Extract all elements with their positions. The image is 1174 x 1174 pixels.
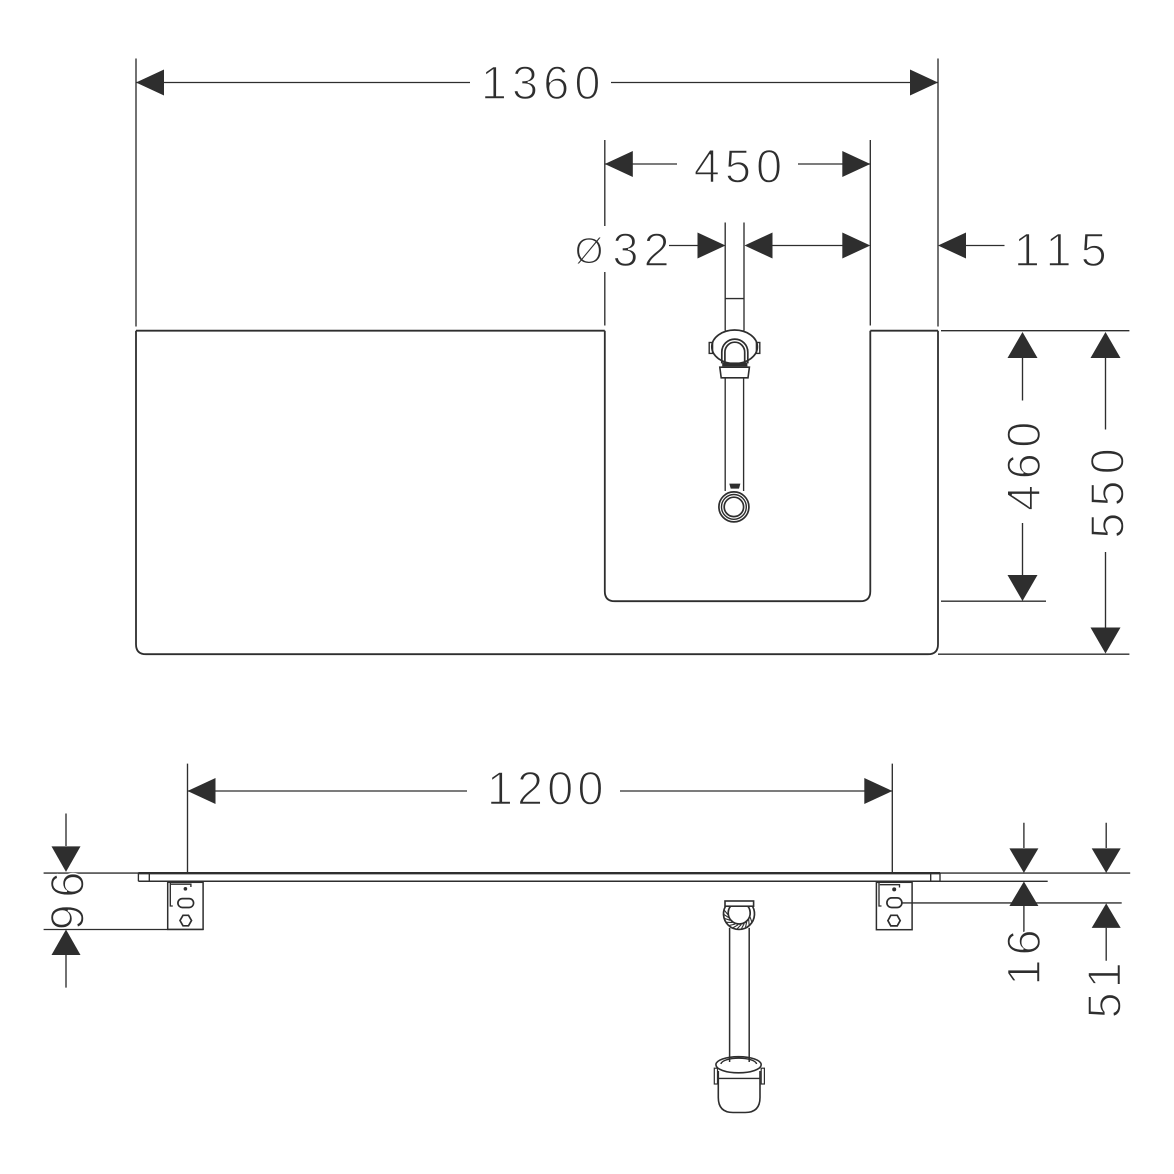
drain ball fitting omega ring <box>722 339 748 363</box>
dimension 115 tail line <box>965 245 1005 247</box>
svg-text:1360: 1360 <box>481 56 606 109</box>
bracket bottom extension left <box>44 929 204 931</box>
trap clamp line <box>718 1077 760 1079</box>
svg-text:Ø: Ø <box>575 230 604 271</box>
dimension 16 arrows <box>1023 823 1025 932</box>
basin bottom extension to right <box>941 600 1046 602</box>
front view: slab top thick edge <box>138 872 940 874</box>
right bracket slot <box>887 898 902 908</box>
front view: slab ends and dividers <box>138 873 940 881</box>
dimension 96 arrows <box>65 814 67 988</box>
extension line left (x=136) <box>135 59 137 327</box>
drain hose lines (top view) <box>725 378 743 491</box>
svg-text:51: 51 <box>1078 958 1131 1018</box>
bottom edge extension to right <box>938 653 1129 655</box>
left bracket hex nut <box>180 915 192 926</box>
dimension 1360 line <box>136 82 938 84</box>
dimension 1200 extension lines <box>188 764 893 874</box>
drain ball fitting body <box>712 330 758 364</box>
front view: reference top line <box>44 872 1131 874</box>
trap flange inner opening <box>721 1058 757 1064</box>
trap side tabs <box>714 1068 717 1084</box>
svg-text:16: 16 <box>997 925 1050 985</box>
trap flange outer <box>716 1057 761 1073</box>
right bracket clip <box>879 882 882 906</box>
svg-text:96: 96 <box>41 865 94 930</box>
svg-text:460: 460 <box>997 416 1050 511</box>
right bracket dot <box>892 887 896 891</box>
svg-text:1200: 1200 <box>487 762 608 815</box>
top view: counter outline <box>136 331 938 655</box>
left bracket body <box>168 882 203 929</box>
svg-text:115: 115 <box>1014 223 1116 276</box>
slab bottom extension right <box>940 880 1048 882</box>
trap tube <box>730 928 750 1062</box>
svg-text:450: 450 <box>694 140 787 193</box>
drain ball fitting side tabs <box>709 343 712 354</box>
dimension 51 arrows <box>1105 823 1107 961</box>
right bracket body <box>876 882 912 929</box>
trap cup <box>718 1071 760 1113</box>
dimension 460 line and arrowheads <box>1022 358 1024 576</box>
drain tube extension lines (top view) <box>725 223 744 331</box>
top view: basin inner outline <box>605 331 871 602</box>
dimension 115 inner line and arrowheads <box>772 245 844 247</box>
drain fitting nut band <box>720 367 750 378</box>
front view: slab bottom edge <box>138 880 940 882</box>
extension line right (x=938) <box>937 59 939 327</box>
left bracket slot <box>178 899 194 908</box>
trap cap <box>725 901 754 906</box>
top edge extension to right <box>941 330 1129 332</box>
dimension 450 arrowheads <box>605 151 633 177</box>
dimension 550 line and arrowheads <box>1105 358 1107 628</box>
dimension 1200 arrowheads <box>188 778 216 804</box>
extension line basin right (x=870.3) <box>869 140 871 326</box>
dimension O32 leader line and arrowheads <box>669 245 699 247</box>
svg-text:550: 550 <box>1081 442 1134 538</box>
drain hose end clamp <box>729 484 740 489</box>
drain tube joint tick <box>725 298 744 300</box>
trap ring <box>724 904 755 929</box>
extension line basin left (x=604.8) <box>604 140 606 326</box>
drain outlet rings <box>719 492 749 522</box>
dimension 450 line <box>605 163 871 165</box>
svg-text:32: 32 <box>612 223 674 276</box>
left bracket dot <box>184 887 188 891</box>
left bracket clip <box>170 882 173 906</box>
drain fitting dark collar <box>722 362 747 366</box>
trap ring hatching <box>724 910 752 929</box>
dimension 1200 line <box>188 790 893 792</box>
slot extension right <box>902 902 1122 904</box>
dimension 1360 arrowheads <box>136 70 164 96</box>
right bracket hex nut <box>888 915 900 926</box>
